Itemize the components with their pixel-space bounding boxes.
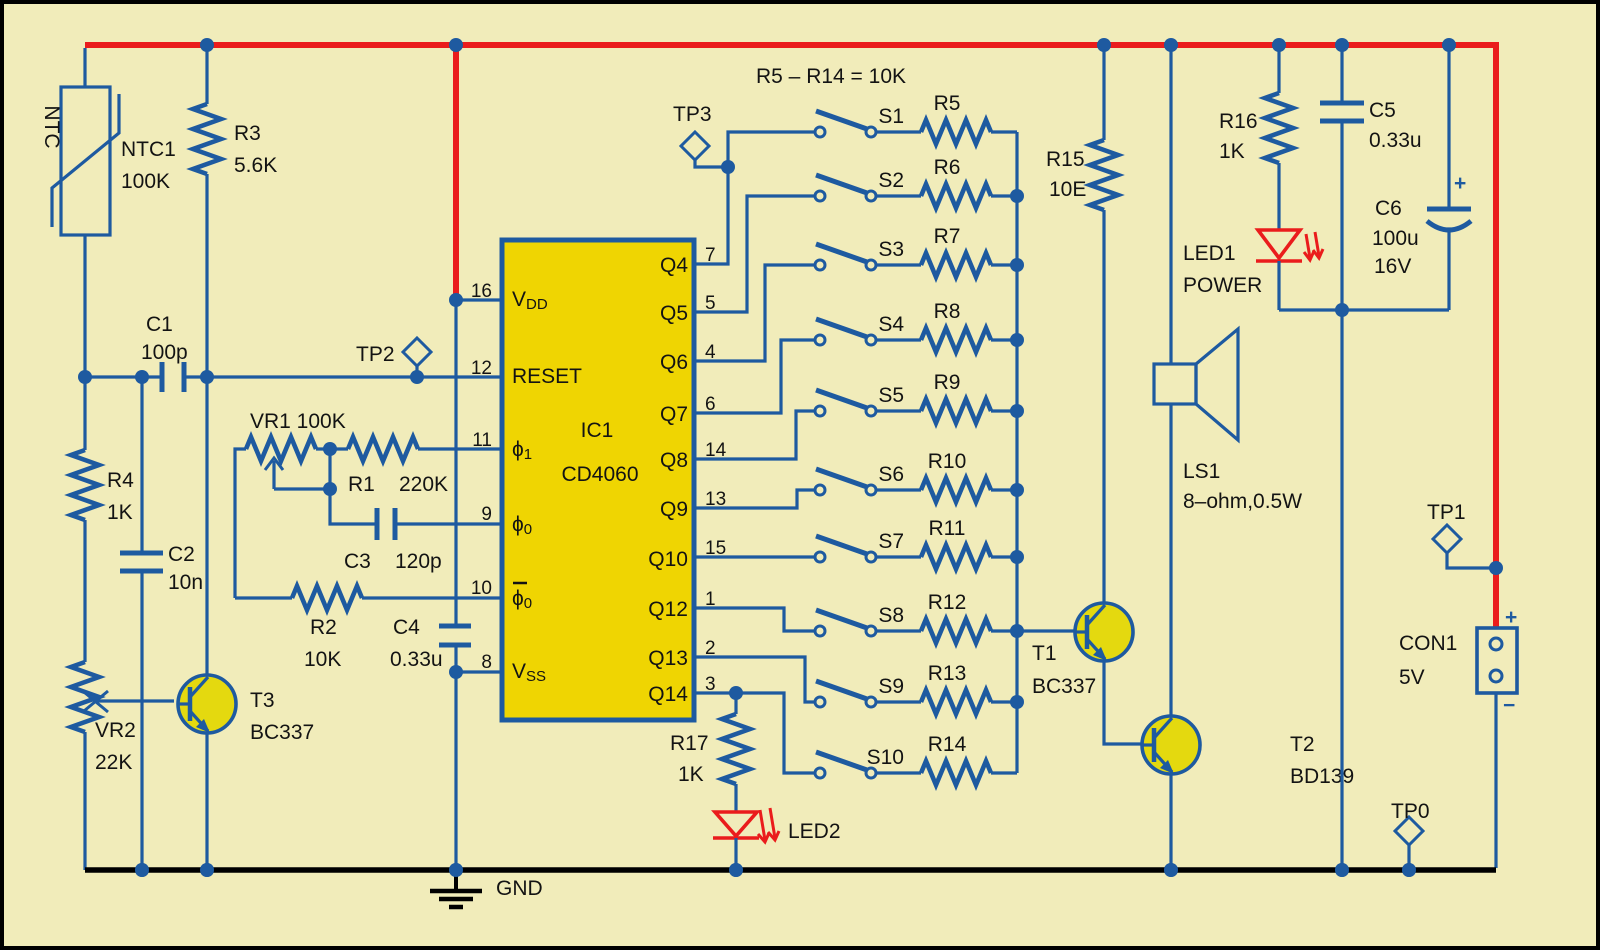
svg-text:R3: R3 — [234, 122, 261, 145]
svg-text:R7: R7 — [934, 225, 961, 248]
svg-text:+: + — [1454, 172, 1466, 195]
junction T2 ground — [1164, 863, 1178, 877]
resistor R1 — [348, 437, 418, 461]
junction LED2 ground — [729, 863, 743, 877]
capacitor C1 — [162, 362, 184, 392]
switch S1 — [815, 111, 876, 137]
svg-text:S6: S6 — [878, 463, 904, 486]
junction bus S4 — [1010, 333, 1024, 347]
svg-text:120p: 120p — [395, 550, 442, 573]
resistor R9 — [876, 399, 1017, 423]
switch S2 — [815, 175, 876, 201]
wire T2 emitter to ground — [1169, 774, 1172, 870]
wire summing bus — [1015, 132, 1018, 773]
wire LED1 to node — [1277, 261, 1280, 310]
junction wiper node — [323, 482, 337, 496]
label LS1 value — [1183, 460, 1302, 513]
svg-text:11: 11 — [472, 430, 492, 451]
resistor R3 — [193, 104, 221, 174]
junction TP1 — [1489, 561, 1503, 575]
svg-text:1K: 1K — [1219, 140, 1245, 163]
junction node A — [78, 370, 92, 384]
svg-text:R11: R11 — [929, 517, 966, 540]
transistor T3 BC337 — [177, 675, 236, 733]
svg-text:R5 – R14 = 10K: R5 – R14 = 10K — [756, 65, 906, 88]
LED1 — [1256, 230, 1323, 261]
ground symbol — [430, 870, 482, 907]
switch S10 — [815, 752, 876, 778]
svg-text:R16: R16 — [1219, 110, 1258, 133]
svg-text:C5: C5 — [1369, 99, 1396, 122]
wire T3 collector — [205, 377, 208, 675]
label NTC1 value — [121, 138, 176, 193]
svg-text:10n: 10n — [168, 571, 203, 594]
svg-text:POWER: POWER — [1183, 274, 1262, 297]
wire ground bus — [85, 867, 1496, 873]
svg-text:VR2: VR2 — [95, 719, 136, 742]
resistor R17 — [722, 693, 750, 814]
svg-text:−: − — [1503, 694, 1515, 717]
switch S5 — [815, 390, 876, 416]
junction rail C5 — [1335, 38, 1349, 52]
connector CON1 — [1477, 606, 1517, 717]
transistor T2 BD139 — [1142, 716, 1200, 774]
resistor R4 — [71, 377, 99, 662]
capacitor C2 — [120, 553, 163, 571]
svg-text:R14: R14 — [928, 733, 967, 756]
resistor R7 — [876, 253, 1017, 277]
svg-text:BD139: BD139 — [1290, 765, 1354, 788]
svg-text:R5: R5 — [934, 92, 961, 115]
wire VR1 wiper to node — [274, 487, 330, 490]
op IC1 CD4060 body — [502, 240, 694, 720]
junction bus S8 — [1010, 624, 1024, 638]
svg-text:10K: 10K — [304, 648, 341, 671]
wire R3 bottom to node B — [205, 174, 208, 377]
wire Q7 to S4 — [696, 340, 815, 413]
svg-text:100u: 100u — [1372, 227, 1419, 250]
junction rail R16 — [1272, 38, 1286, 52]
switch S7 — [815, 536, 876, 562]
label VR2 — [95, 719, 136, 774]
wire C1 to RESET pin 12 — [184, 375, 500, 378]
junction bus S7 — [1010, 550, 1024, 564]
junction rail R15 — [1097, 38, 1111, 52]
svg-text:100K: 100K — [121, 170, 170, 193]
wire C2 to ground bus — [140, 571, 143, 870]
junction bus S2 — [1010, 189, 1024, 203]
svg-text:S3: S3 — [878, 238, 904, 261]
wire T1 emitter to T2 base — [1104, 661, 1142, 744]
resistor R8 — [876, 328, 1017, 352]
svg-text:R6: R6 — [934, 156, 961, 179]
switch S6 — [815, 469, 876, 495]
svg-text:S10: S10 — [867, 746, 904, 769]
wire C2 branch — [140, 377, 143, 553]
svg-text:S8: S8 — [878, 604, 904, 627]
svg-text:R9: R9 — [934, 371, 961, 394]
svg-text:8: 8 — [481, 652, 492, 673]
label C1 — [141, 313, 188, 364]
wire CON1 to ground — [1494, 693, 1497, 868]
wire VR1 to R1 — [316, 447, 348, 450]
resistor R5 — [876, 120, 1017, 144]
svg-text:TP3: TP3 — [673, 103, 712, 126]
svg-text:BC337: BC337 — [250, 721, 314, 744]
svg-text:16V: 16V — [1374, 255, 1411, 278]
svg-text:TP1: TP1 — [1427, 501, 1466, 524]
svg-text:GND: GND — [496, 877, 543, 900]
label R2 10K — [304, 616, 341, 671]
wire C6 to node — [1447, 231, 1450, 310]
svg-text:9: 9 — [481, 504, 492, 525]
svg-text:C3: C3 — [344, 550, 371, 573]
junction VR1/R1 — [323, 442, 337, 456]
svg-text:R8: R8 — [934, 300, 961, 323]
label C6 value — [1372, 197, 1419, 278]
svg-text:Q7: Q7 — [660, 403, 688, 426]
label C3 120p — [344, 550, 442, 573]
resistor R14 — [876, 761, 1017, 785]
svg-text:C1: C1 — [146, 313, 173, 336]
test point TP1 — [1433, 525, 1496, 568]
svg-text:S5: S5 — [878, 384, 904, 407]
svg-text:NTC: NTC — [40, 105, 63, 148]
svg-text:LED1: LED1 — [1183, 242, 1236, 265]
svg-text:1K: 1K — [107, 501, 133, 524]
wire Q12 to S8 — [696, 608, 815, 631]
wire T3 emitter to ground — [205, 733, 208, 870]
svg-text:Q10: Q10 — [648, 548, 688, 571]
junction main ground — [449, 863, 463, 877]
capacitor C4 — [439, 626, 471, 645]
wire Q13 to S9 — [696, 657, 815, 702]
svg-text:C6: C6 — [1375, 197, 1402, 220]
svg-text:CON1: CON1 — [1399, 632, 1457, 655]
svg-text:IC1: IC1 — [581, 419, 614, 442]
resistor R10 — [876, 478, 1017, 502]
transistor T1 BC337 — [1075, 603, 1133, 661]
speaker LS1 — [1154, 329, 1238, 440]
switch S9 — [815, 681, 876, 707]
svg-text:8–ohm,0.5W: 8–ohm,0.5W — [1183, 490, 1302, 513]
junction pin 8 — [449, 665, 463, 679]
wire Q5 to S2 — [696, 196, 815, 312]
label T1 — [1032, 642, 1096, 698]
svg-text:S4: S4 — [878, 313, 904, 336]
label R17 — [670, 732, 709, 786]
test point TP2 — [403, 338, 431, 374]
junction TP2 — [410, 370, 424, 384]
svg-text:R15: R15 — [1046, 148, 1085, 171]
svg-text:Q8: Q8 — [660, 449, 688, 472]
wire Q9 to S6 — [696, 490, 815, 508]
svg-text:S1: S1 — [878, 105, 904, 128]
junction node B — [200, 370, 214, 384]
svg-text:CD4060: CD4060 — [561, 463, 638, 486]
junction C5 ground — [1335, 863, 1349, 877]
wire Q8 to S5 — [696, 411, 815, 459]
junction C2 top — [135, 370, 149, 384]
label C5 value — [1369, 99, 1422, 152]
switch S4 — [815, 319, 876, 345]
svg-text:Q13: Q13 — [648, 647, 688, 670]
wire bus to T1 base — [1017, 629, 1075, 632]
wire node A to C1 — [85, 375, 161, 378]
svg-text:RESET: RESET — [512, 365, 582, 388]
label R4 — [107, 469, 134, 524]
svg-text:R10: R10 — [928, 450, 967, 473]
junction C2 ground — [135, 863, 149, 877]
svg-text:10: 10 — [471, 578, 492, 599]
svg-text:R1: R1 — [348, 473, 375, 496]
svg-text:Q9: Q9 — [660, 498, 688, 521]
svg-text:R4: R4 — [107, 469, 134, 492]
wire VCC right rail down to CON1 — [1493, 42, 1499, 628]
label T3 — [250, 689, 314, 744]
svg-text:LED2: LED2 — [788, 820, 841, 843]
svg-text:+: + — [1505, 606, 1517, 629]
potentiometer VR1 — [246, 437, 316, 489]
label R3 — [234, 122, 277, 177]
potentiometer VR2 — [71, 662, 174, 870]
svg-text:220K: 220K — [399, 473, 448, 496]
svg-text:T1: T1 — [1032, 642, 1057, 665]
label T2 — [1290, 733, 1354, 788]
label CON1 5V — [1399, 632, 1457, 689]
wire Q14 to S10 — [696, 693, 815, 773]
resistor R13 — [876, 690, 1017, 714]
wire pin 8 stub — [456, 670, 500, 673]
junction bus S9 — [1010, 695, 1024, 709]
junction bus S5 — [1010, 404, 1024, 418]
capacitor C5 — [1320, 103, 1364, 121]
svg-text:0.33u: 0.33u — [390, 648, 443, 671]
wire rail to R3 — [205, 45, 208, 104]
svg-text:Q5: Q5 — [660, 302, 688, 325]
resistor R2 — [292, 586, 362, 610]
svg-text:Q4: Q4 — [660, 254, 688, 277]
resistor R12 — [876, 619, 1017, 643]
svg-text:Q6: Q6 — [660, 351, 688, 374]
svg-text:Q14: Q14 — [648, 683, 688, 706]
junction rail R3 — [200, 38, 214, 52]
resistor R11 — [876, 545, 1017, 569]
svg-text:0.33u: 0.33u — [1369, 129, 1422, 152]
capacitor C6 polarized — [1427, 172, 1471, 230]
wire NTC top — [83, 48, 86, 88]
wire R2 left — [235, 596, 292, 599]
junction rail LS1 — [1164, 38, 1178, 52]
LED2 — [713, 808, 779, 842]
wire R2 to pin 10 — [362, 596, 500, 599]
wire C4 to Vss — [454, 645, 457, 672]
svg-text:5V: 5V — [1399, 666, 1425, 689]
svg-text:R17: R17 — [670, 732, 709, 755]
thermistor NTC1 body — [52, 87, 119, 235]
junction C5 node — [1335, 303, 1349, 317]
wire rail to C6 — [1447, 45, 1450, 211]
label R15 10E — [1046, 148, 1086, 201]
junction TP0 ground — [1402, 863, 1416, 877]
junction rail C6 — [1442, 38, 1456, 52]
wire rail to C5 — [1340, 45, 1343, 103]
svg-text:C4: C4 — [393, 616, 420, 639]
svg-text:T2: T2 — [1290, 733, 1315, 756]
svg-text:C2: C2 — [168, 543, 195, 566]
resistor R16 — [1265, 45, 1293, 230]
label C2 — [168, 543, 203, 594]
wire VDD down to C4 — [454, 300, 457, 626]
svg-text:10E: 10E — [1049, 178, 1086, 201]
switch S3 — [815, 244, 876, 270]
wire LED2 to ground — [734, 838, 737, 870]
svg-text:22K: 22K — [95, 751, 132, 774]
wire rail to LS1 — [1169, 45, 1172, 364]
wire Vss to ground — [454, 672, 457, 870]
junction bus S6 — [1010, 483, 1024, 497]
svg-text:S9: S9 — [878, 675, 904, 698]
junction T3 ground — [200, 863, 214, 877]
svg-text:BC337: BC337 — [1032, 675, 1096, 698]
wire R1 to pin 11 — [418, 447, 500, 450]
wire C5 to ground — [1340, 121, 1343, 870]
switch S8 — [815, 610, 876, 636]
svg-text:VR1 100K: VR1 100K — [250, 410, 346, 433]
svg-text:LS1: LS1 — [1183, 460, 1220, 483]
capacitor C3 — [377, 508, 395, 540]
label R16 1K — [1219, 110, 1258, 163]
resistor R15 — [1090, 45, 1118, 603]
label LED1 POWER — [1183, 242, 1262, 297]
svg-text:12: 12 — [471, 358, 492, 379]
junction rail VDD — [449, 38, 463, 52]
svg-text:S7: S7 — [878, 530, 904, 553]
svg-text:16: 16 — [471, 281, 492, 302]
test point TP3 — [681, 132, 728, 167]
svg-text:1K: 1K — [678, 763, 704, 786]
pin name phi0bar — [512, 583, 532, 612]
svg-text:T3: T3 — [250, 689, 275, 712]
svg-text:TP2: TP2 — [356, 343, 395, 366]
label R1 220K — [348, 473, 448, 496]
wire VDD red drop to pin 16 — [453, 45, 459, 300]
wire LED node horizontal — [1279, 308, 1449, 311]
junction R17 tap — [729, 686, 743, 700]
svg-text:TP0: TP0 — [1391, 800, 1430, 823]
wire Q6 to S3 — [696, 265, 815, 361]
svg-text:Q12: Q12 — [648, 598, 688, 621]
wire pin 16 stub — [456, 298, 500, 301]
wire VCC top rail — [85, 42, 1496, 48]
wire Q10 to S7 — [696, 555, 815, 558]
wire Q4 to S1 — [696, 132, 815, 264]
junction dots on ground bus — [135, 863, 1416, 877]
svg-text:5.6K: 5.6K — [234, 154, 277, 177]
svg-text:NTC1: NTC1 — [121, 138, 176, 161]
svg-text:S2: S2 — [878, 169, 904, 192]
svg-text:100p: 100p — [141, 341, 188, 364]
wire node to C3 — [330, 449, 376, 524]
junction pin 16 — [449, 293, 463, 307]
label C4 value — [390, 616, 443, 671]
junction TP3 — [721, 160, 735, 174]
wire LS1 to T2 collector — [1169, 404, 1172, 716]
resistor R6 — [876, 184, 1017, 208]
test point TP0 — [1395, 817, 1423, 870]
junction bus S3 — [1010, 258, 1024, 272]
wire NTC bottom to node A — [83, 235, 86, 377]
svg-text:R13: R13 — [928, 662, 967, 685]
svg-text:R2: R2 — [310, 616, 337, 639]
wire C3 to pin 9 — [395, 522, 500, 525]
wire VR1 left leg — [235, 449, 246, 598]
svg-text:R12: R12 — [928, 591, 967, 614]
